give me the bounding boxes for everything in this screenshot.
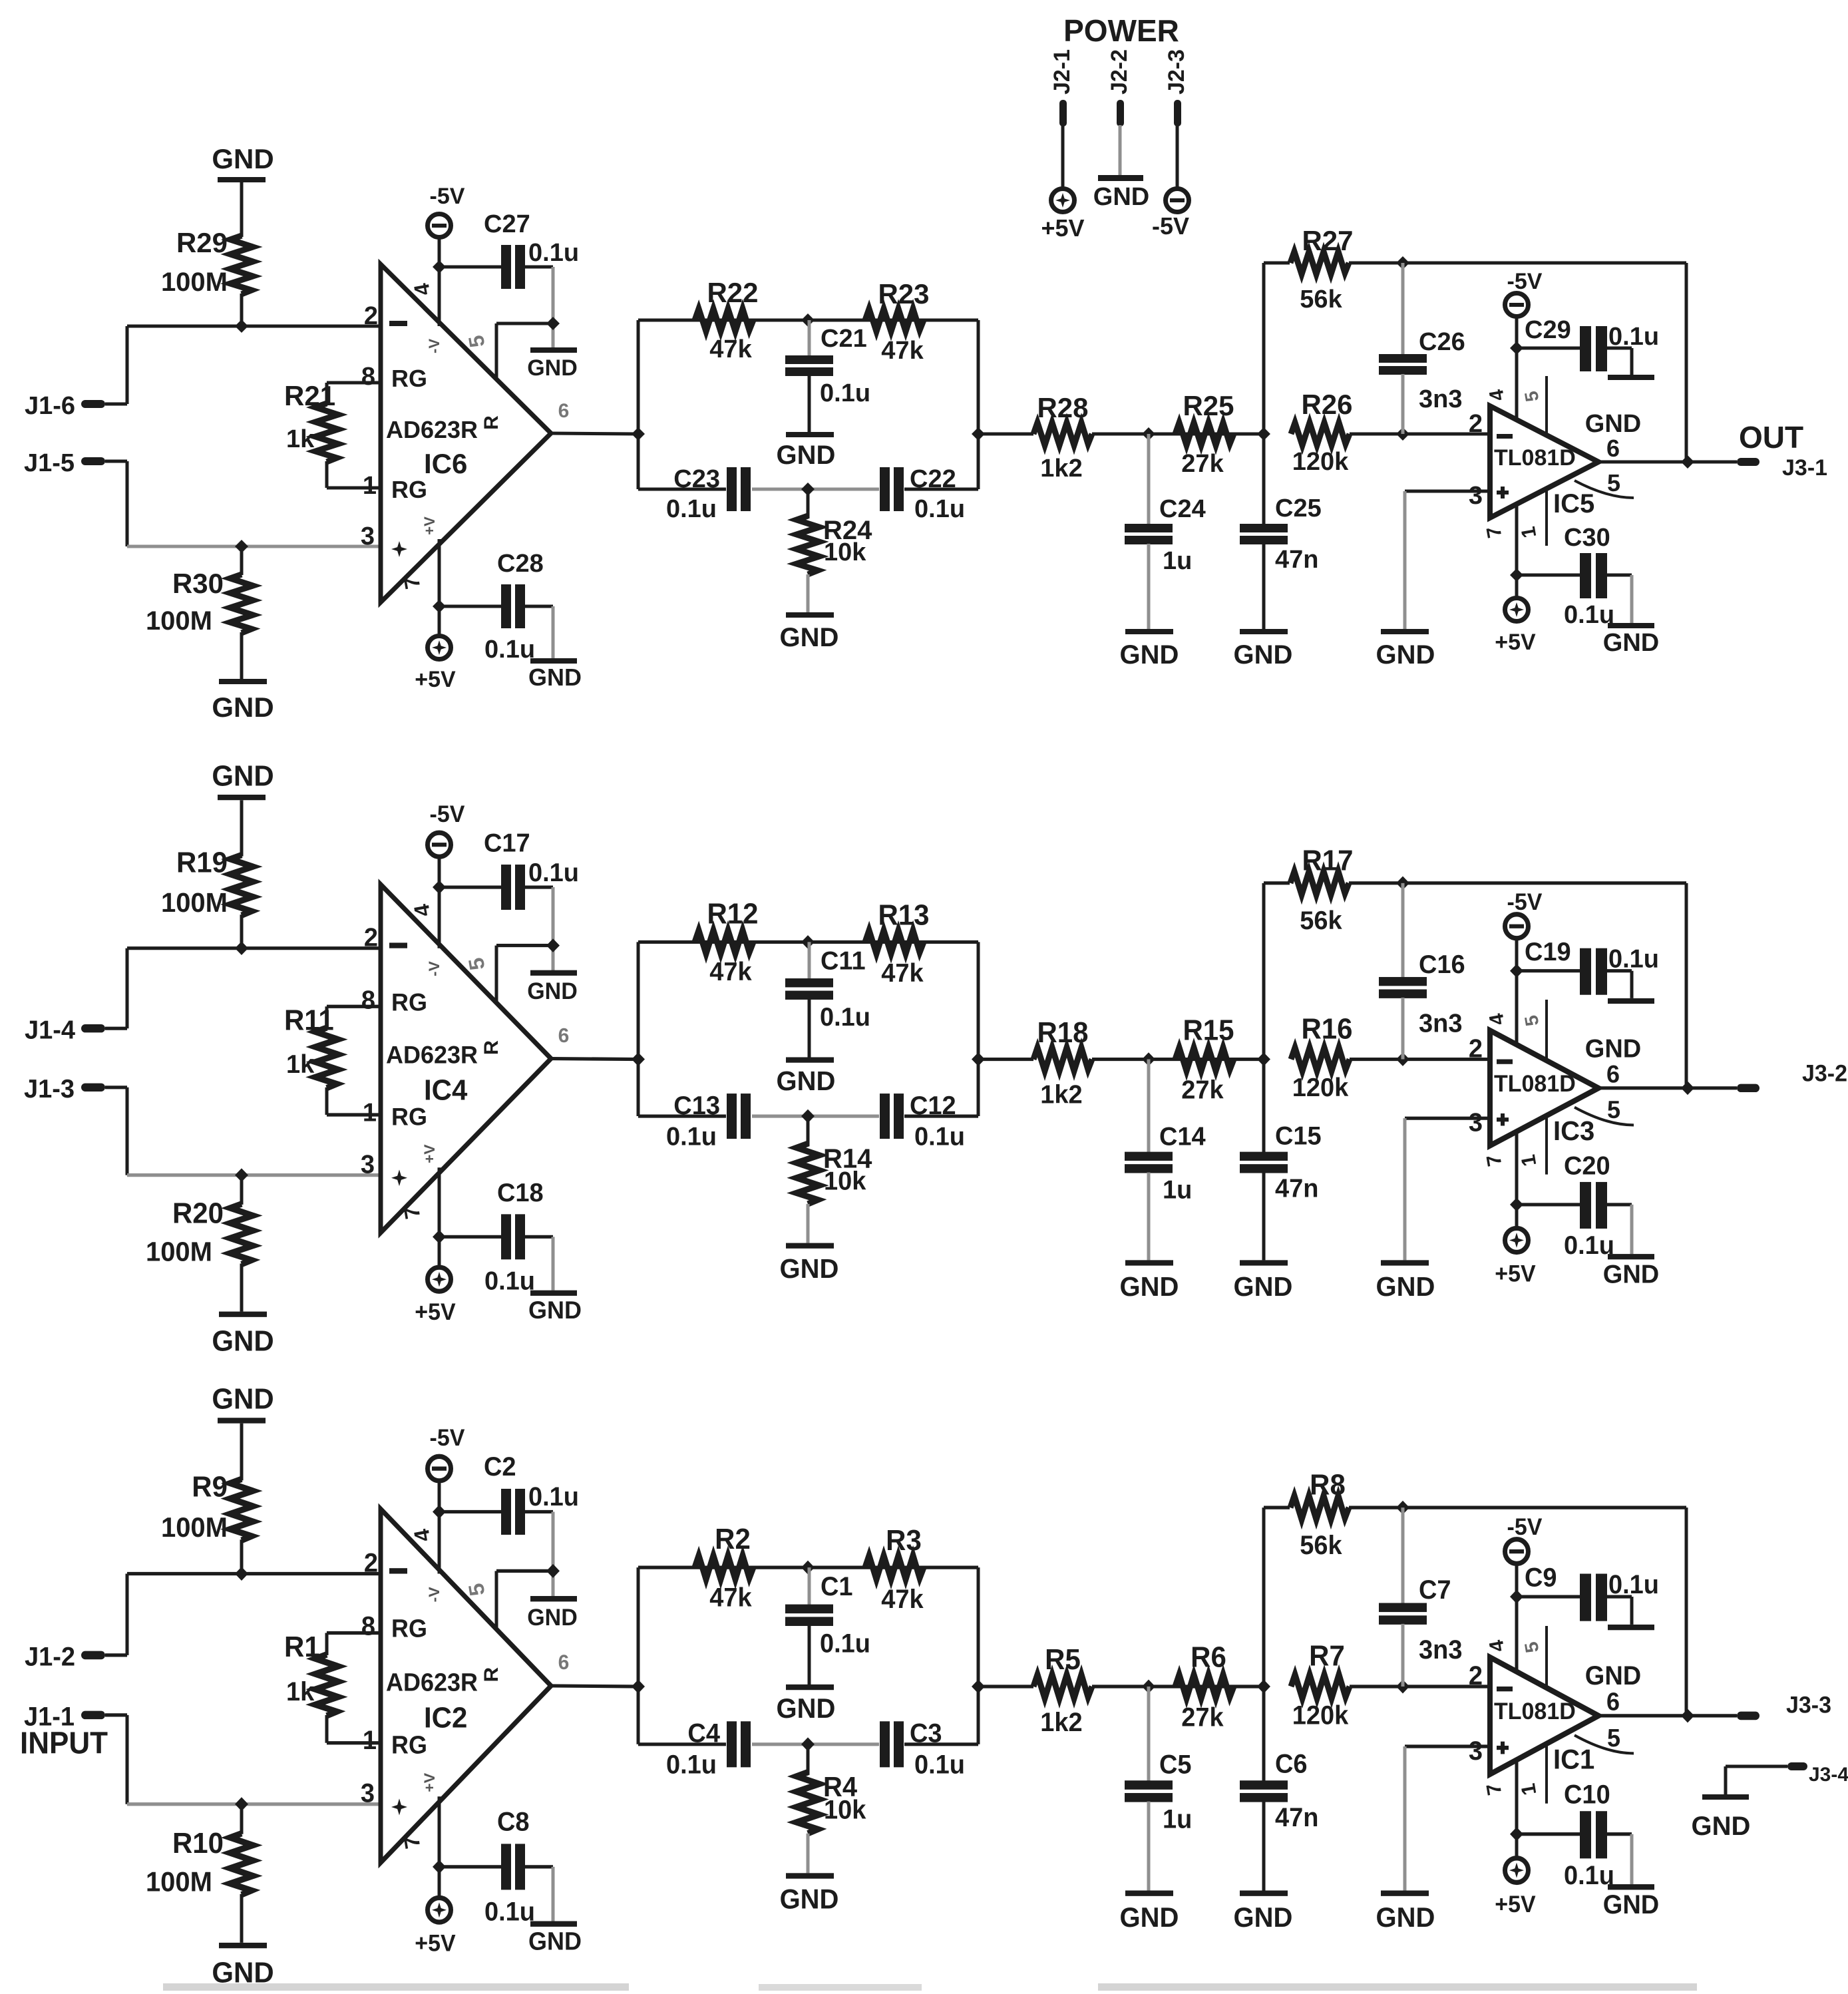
svg-text:C28: C28 bbox=[497, 550, 544, 578]
svg-text:6: 6 bbox=[558, 400, 570, 422]
svg-text:J3-3: J3-3 bbox=[1786, 1693, 1831, 1718]
svg-text:R20: R20 bbox=[172, 1197, 224, 1230]
svg-text:+V: +V bbox=[421, 516, 438, 535]
svg-text:47n: 47n bbox=[1275, 1174, 1318, 1203]
svg-text:J1-4: J1-4 bbox=[25, 1016, 76, 1045]
svg-text:J2-1: J2-1 bbox=[1049, 49, 1075, 95]
svg-text:-V: -V bbox=[426, 961, 443, 976]
svg-text:IC4: IC4 bbox=[424, 1074, 468, 1107]
svg-text:+5V: +5V bbox=[415, 1300, 455, 1326]
svg-text:2: 2 bbox=[1469, 1034, 1483, 1064]
svg-text:27k: 27k bbox=[1181, 450, 1224, 478]
svg-text:-5V: -5V bbox=[1507, 890, 1543, 916]
svg-text:GND: GND bbox=[1120, 1271, 1179, 1302]
svg-text:TL081D: TL081D bbox=[1494, 445, 1576, 471]
svg-text:C4: C4 bbox=[687, 1719, 720, 1748]
svg-text:2: 2 bbox=[1469, 1661, 1483, 1691]
svg-text:R7: R7 bbox=[1309, 1640, 1345, 1673]
svg-text:C12: C12 bbox=[910, 1091, 956, 1120]
svg-text:3: 3 bbox=[361, 522, 375, 550]
svg-text:3: 3 bbox=[1469, 1108, 1483, 1137]
svg-text:47k: 47k bbox=[881, 959, 924, 988]
svg-text:56k: 56k bbox=[1300, 906, 1342, 935]
svg-text:C14: C14 bbox=[1159, 1122, 1206, 1151]
svg-text:1k: 1k bbox=[286, 425, 315, 453]
svg-text:C7: C7 bbox=[1419, 1575, 1451, 1605]
svg-text:J1-6: J1-6 bbox=[25, 392, 75, 420]
svg-text:GND: GND bbox=[527, 978, 578, 1004]
svg-text:R: R bbox=[480, 1667, 502, 1683]
svg-text:-5V: -5V bbox=[1152, 212, 1189, 240]
svg-text:C30: C30 bbox=[1564, 524, 1610, 552]
svg-text:R28: R28 bbox=[1037, 392, 1088, 423]
svg-text:GND: GND bbox=[1376, 1901, 1435, 1933]
svg-text:47n: 47n bbox=[1275, 1803, 1318, 1832]
svg-text:0.1u: 0.1u bbox=[1608, 1570, 1659, 1599]
svg-text:C11: C11 bbox=[821, 946, 866, 976]
svg-text:R12: R12 bbox=[707, 898, 758, 930]
svg-text:10k: 10k bbox=[824, 538, 866, 566]
svg-text:6: 6 bbox=[1606, 1060, 1620, 1088]
svg-text:C29: C29 bbox=[1525, 316, 1571, 344]
svg-text:0.1u: 0.1u bbox=[484, 636, 535, 664]
svg-text:GND: GND bbox=[780, 623, 839, 652]
svg-text:J2-2: J2-2 bbox=[1107, 49, 1132, 95]
svg-text:R9: R9 bbox=[192, 1471, 228, 1503]
svg-text:C26: C26 bbox=[1419, 328, 1465, 356]
svg-text:0.1u: 0.1u bbox=[484, 1267, 535, 1296]
svg-text:0.1u: 0.1u bbox=[528, 1482, 579, 1511]
svg-text:GND: GND bbox=[212, 692, 274, 723]
svg-text:R1: R1 bbox=[284, 1631, 320, 1663]
svg-text:C8: C8 bbox=[497, 1808, 530, 1837]
svg-text:5: 5 bbox=[1607, 469, 1620, 497]
svg-text:J2-3: J2-3 bbox=[1164, 49, 1189, 95]
svg-text:J1-2: J1-2 bbox=[25, 1643, 75, 1672]
svg-text:J1-5: J1-5 bbox=[24, 449, 75, 477]
svg-text:3n3: 3n3 bbox=[1419, 1635, 1462, 1665]
svg-text:GND: GND bbox=[1585, 1034, 1641, 1064]
svg-text:C22: C22 bbox=[910, 465, 956, 493]
svg-text:3n3: 3n3 bbox=[1419, 1009, 1462, 1038]
svg-text:1k: 1k bbox=[286, 1050, 315, 1080]
svg-text:47k: 47k bbox=[709, 958, 752, 987]
svg-text:GND: GND bbox=[212, 1383, 274, 1416]
svg-text:C10: C10 bbox=[1564, 1780, 1610, 1810]
svg-text:GND: GND bbox=[777, 441, 836, 470]
svg-text:3: 3 bbox=[1469, 482, 1483, 510]
svg-text:R11: R11 bbox=[284, 1004, 334, 1037]
svg-text:2: 2 bbox=[364, 923, 378, 952]
svg-text:2: 2 bbox=[364, 302, 378, 330]
svg-text:C16: C16 bbox=[1419, 950, 1465, 979]
svg-text:GND: GND bbox=[527, 1605, 578, 1631]
svg-text:47k: 47k bbox=[881, 1585, 924, 1614]
svg-text:OUT: OUT bbox=[1739, 420, 1803, 455]
svg-text:100M: 100M bbox=[146, 606, 212, 636]
svg-text:R29: R29 bbox=[176, 227, 228, 258]
svg-text:GND: GND bbox=[1376, 640, 1435, 670]
svg-text:C23: C23 bbox=[673, 465, 720, 493]
svg-text:100M: 100M bbox=[146, 1866, 212, 1897]
svg-text:0.1u: 0.1u bbox=[820, 379, 870, 407]
svg-text:1k2: 1k2 bbox=[1040, 1080, 1082, 1109]
svg-text:1u: 1u bbox=[1163, 1805, 1192, 1834]
svg-text:GND: GND bbox=[1234, 1901, 1293, 1933]
svg-text:R16: R16 bbox=[1301, 1013, 1352, 1046]
svg-text:8: 8 bbox=[361, 986, 375, 1015]
svg-text:GND: GND bbox=[1585, 1661, 1641, 1691]
svg-text:+5V: +5V bbox=[1495, 630, 1536, 655]
svg-text:0.1u: 0.1u bbox=[666, 1750, 717, 1780]
svg-text:-V: -V bbox=[426, 1587, 442, 1602]
svg-text:R22: R22 bbox=[707, 277, 758, 308]
svg-text:3: 3 bbox=[1469, 1736, 1483, 1766]
svg-text:R15: R15 bbox=[1183, 1014, 1234, 1047]
svg-text:IC6: IC6 bbox=[424, 448, 467, 479]
svg-text:1: 1 bbox=[363, 472, 377, 500]
svg-text:R13: R13 bbox=[878, 899, 929, 932]
svg-text:0.1u: 0.1u bbox=[528, 239, 579, 267]
svg-text:100M: 100M bbox=[161, 887, 228, 918]
svg-text:AD623R: AD623R bbox=[386, 1669, 478, 1696]
svg-text:5: 5 bbox=[1607, 1096, 1620, 1124]
svg-text:27k: 27k bbox=[1181, 1703, 1224, 1732]
svg-text:6: 6 bbox=[558, 1650, 570, 1674]
svg-text:RG: RG bbox=[391, 1731, 427, 1759]
svg-text:47k: 47k bbox=[709, 335, 752, 363]
svg-text:C25: C25 bbox=[1275, 495, 1322, 522]
svg-text:R25: R25 bbox=[1183, 390, 1234, 421]
svg-text:TL081D: TL081D bbox=[1494, 1698, 1576, 1724]
svg-text:0.1u: 0.1u bbox=[820, 1003, 870, 1032]
svg-text:C18: C18 bbox=[497, 1178, 544, 1207]
svg-text:C5: C5 bbox=[1159, 1750, 1192, 1780]
svg-text:2: 2 bbox=[1469, 410, 1483, 438]
svg-text:R3: R3 bbox=[886, 1524, 922, 1557]
svg-text:INPUT: INPUT bbox=[20, 1725, 108, 1760]
svg-text:C1: C1 bbox=[821, 1572, 853, 1601]
svg-text:0.1u: 0.1u bbox=[666, 495, 717, 523]
svg-text:0.1u: 0.1u bbox=[1564, 601, 1614, 629]
svg-text:C3: C3 bbox=[910, 1719, 942, 1748]
svg-text:1k2: 1k2 bbox=[1040, 1708, 1082, 1737]
svg-text:-V: -V bbox=[426, 339, 443, 353]
svg-text:3: 3 bbox=[361, 1150, 375, 1179]
svg-text:-5V: -5V bbox=[430, 1425, 465, 1451]
svg-text:1: 1 bbox=[363, 1726, 377, 1755]
svg-text:+5V: +5V bbox=[415, 1931, 455, 1957]
svg-text:C27: C27 bbox=[484, 210, 530, 238]
svg-text:GND: GND bbox=[1603, 1890, 1659, 1919]
svg-text:C9: C9 bbox=[1525, 1563, 1557, 1593]
svg-text:AD623R: AD623R bbox=[386, 416, 478, 443]
svg-text:TL081D: TL081D bbox=[1494, 1072, 1576, 1097]
svg-text:27k: 27k bbox=[1181, 1076, 1224, 1105]
svg-text:+V: +V bbox=[421, 1144, 438, 1163]
svg-text:0.1u: 0.1u bbox=[1564, 1231, 1614, 1261]
svg-text:GND: GND bbox=[1120, 640, 1179, 670]
svg-text:R27: R27 bbox=[1302, 225, 1353, 256]
svg-text:+V: +V bbox=[421, 1773, 437, 1792]
svg-text:GND: GND bbox=[528, 664, 582, 691]
svg-text:47k: 47k bbox=[881, 337, 924, 365]
svg-text:1: 1 bbox=[363, 1098, 377, 1127]
svg-text:GND: GND bbox=[780, 1884, 839, 1915]
svg-text:8: 8 bbox=[361, 363, 375, 391]
svg-text:C24: C24 bbox=[1159, 495, 1206, 523]
svg-text:1u: 1u bbox=[1163, 1175, 1192, 1205]
svg-text:RG: RG bbox=[391, 365, 427, 392]
svg-text:0.1u: 0.1u bbox=[914, 1122, 965, 1151]
svg-text:IC2: IC2 bbox=[424, 1702, 467, 1734]
svg-text:J1-3: J1-3 bbox=[24, 1075, 75, 1104]
svg-text:0.1u: 0.1u bbox=[1564, 1861, 1614, 1890]
svg-text:C2: C2 bbox=[484, 1452, 516, 1482]
svg-text:J3-2: J3-2 bbox=[1802, 1061, 1847, 1087]
svg-text:10k: 10k bbox=[824, 1167, 866, 1196]
svg-text:100M: 100M bbox=[161, 1511, 228, 1543]
svg-text:3n3: 3n3 bbox=[1419, 385, 1462, 413]
svg-text:R19: R19 bbox=[176, 847, 228, 879]
svg-text:0.1u: 0.1u bbox=[1608, 944, 1659, 974]
svg-text:GND: GND bbox=[212, 760, 274, 793]
svg-text:8: 8 bbox=[361, 1612, 375, 1641]
svg-text:1k2: 1k2 bbox=[1040, 455, 1082, 483]
svg-text:RG: RG bbox=[391, 476, 427, 503]
svg-text:GND: GND bbox=[212, 1325, 274, 1358]
svg-text:R10: R10 bbox=[172, 1827, 224, 1860]
svg-text:R21: R21 bbox=[284, 380, 335, 411]
svg-text:-5V: -5V bbox=[430, 184, 465, 209]
svg-text:POWER: POWER bbox=[1063, 13, 1179, 48]
svg-text:C20: C20 bbox=[1564, 1151, 1610, 1181]
svg-text:GND: GND bbox=[1234, 640, 1293, 670]
svg-text:0.1u: 0.1u bbox=[914, 1750, 965, 1780]
svg-text:IC1: IC1 bbox=[1553, 1744, 1594, 1775]
svg-text:6: 6 bbox=[1606, 1688, 1620, 1716]
svg-text:+5V: +5V bbox=[415, 667, 456, 692]
svg-text:GND: GND bbox=[1120, 1901, 1179, 1933]
svg-text:J3-4: J3-4 bbox=[1809, 1764, 1848, 1786]
svg-text:GND: GND bbox=[1234, 1271, 1293, 1302]
svg-text:+5V: +5V bbox=[1495, 1892, 1535, 1917]
svg-text:120k: 120k bbox=[1292, 1701, 1349, 1730]
svg-text:GND: GND bbox=[780, 1253, 839, 1285]
svg-text:GND: GND bbox=[777, 1065, 836, 1096]
svg-text:R: R bbox=[480, 415, 502, 430]
svg-text:6: 6 bbox=[1606, 435, 1620, 462]
svg-text:R6: R6 bbox=[1191, 1641, 1226, 1674]
svg-text:RG: RG bbox=[391, 988, 427, 1016]
svg-text:IC3: IC3 bbox=[1553, 1115, 1594, 1147]
svg-text:100M: 100M bbox=[161, 268, 228, 297]
svg-text:GND: GND bbox=[1376, 1271, 1435, 1302]
svg-text:-5V: -5V bbox=[1507, 1514, 1543, 1540]
svg-text:GND: GND bbox=[1603, 1260, 1659, 1289]
svg-text:C19: C19 bbox=[1525, 938, 1571, 967]
svg-text:+5V: +5V bbox=[1041, 214, 1084, 242]
svg-text:RG: RG bbox=[391, 1615, 427, 1643]
svg-text:R18: R18 bbox=[1037, 1016, 1088, 1049]
svg-text:R5: R5 bbox=[1045, 1643, 1081, 1676]
svg-text:6: 6 bbox=[558, 1024, 570, 1046]
svg-text:GND: GND bbox=[1603, 629, 1659, 657]
svg-text:56k: 56k bbox=[1300, 286, 1342, 313]
svg-text:47n: 47n bbox=[1275, 546, 1318, 574]
svg-text:R23: R23 bbox=[878, 278, 929, 309]
svg-text:R17: R17 bbox=[1302, 845, 1353, 877]
svg-text:0.1u: 0.1u bbox=[1608, 323, 1659, 351]
svg-text:2: 2 bbox=[364, 1549, 378, 1578]
svg-text:J3-1: J3-1 bbox=[1782, 455, 1827, 481]
svg-text:GND: GND bbox=[528, 1927, 582, 1955]
svg-text:0.1u: 0.1u bbox=[914, 495, 965, 523]
svg-text:AD623R: AD623R bbox=[386, 1041, 478, 1069]
svg-text:GND: GND bbox=[1093, 183, 1149, 211]
svg-text:47k: 47k bbox=[709, 1583, 752, 1613]
svg-text:R2: R2 bbox=[715, 1523, 751, 1555]
svg-text:GND: GND bbox=[527, 355, 578, 381]
svg-text:RG: RG bbox=[391, 1103, 427, 1131]
svg-text:R30: R30 bbox=[172, 568, 224, 599]
svg-text:120k: 120k bbox=[1292, 448, 1349, 476]
svg-text:0.1u: 0.1u bbox=[666, 1122, 717, 1151]
svg-text:GND: GND bbox=[212, 143, 274, 174]
svg-text:-5V: -5V bbox=[1507, 269, 1543, 294]
svg-text:0.1u: 0.1u bbox=[820, 1629, 870, 1659]
svg-text:+5V: +5V bbox=[1495, 1261, 1535, 1287]
svg-text:10k: 10k bbox=[824, 1796, 866, 1825]
svg-text:GND: GND bbox=[1692, 1812, 1751, 1841]
svg-text:1u: 1u bbox=[1163, 547, 1192, 575]
svg-text:120k: 120k bbox=[1292, 1074, 1349, 1103]
svg-text:C13: C13 bbox=[673, 1091, 720, 1120]
svg-text:C6: C6 bbox=[1275, 1750, 1308, 1779]
svg-text:GND: GND bbox=[1585, 410, 1641, 438]
svg-text:C21: C21 bbox=[821, 325, 867, 353]
svg-text:100M: 100M bbox=[146, 1236, 212, 1267]
svg-text:R26: R26 bbox=[1301, 389, 1352, 420]
svg-text:0.1u: 0.1u bbox=[484, 1897, 535, 1927]
svg-text:GND: GND bbox=[528, 1296, 582, 1324]
svg-text:R: R bbox=[480, 1040, 502, 1055]
svg-text:-5V: -5V bbox=[430, 802, 465, 828]
svg-text:0.1u: 0.1u bbox=[528, 858, 579, 887]
svg-text:IC5: IC5 bbox=[1553, 489, 1594, 518]
svg-text:R8: R8 bbox=[1310, 1468, 1346, 1501]
svg-text:C17: C17 bbox=[484, 829, 530, 858]
svg-text:C15: C15 bbox=[1275, 1121, 1322, 1151]
svg-text:56k: 56k bbox=[1300, 1531, 1342, 1560]
svg-text:3: 3 bbox=[361, 1779, 375, 1808]
svg-text:GND: GND bbox=[777, 1693, 836, 1724]
svg-text:5: 5 bbox=[1607, 1724, 1620, 1752]
svg-text:1k: 1k bbox=[286, 1677, 315, 1706]
